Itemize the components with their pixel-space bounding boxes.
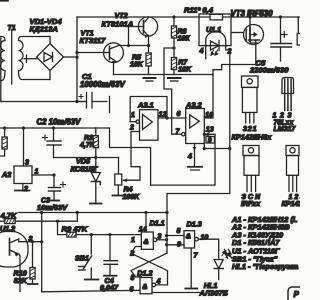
resistor R10 xyxy=(28,242,38,284)
resistor R9 xyxy=(58,221,142,237)
svg-text:R11* 0,4: R11* 0,4 xyxy=(184,5,214,14)
wire left vertical x43 xyxy=(41,213,43,292)
resistor R7 xyxy=(171,48,176,75)
op-amp A3.1 xyxy=(130,97,186,141)
svg-text:2200m/630: 2200m/630 xyxy=(249,66,289,75)
wire latch node upper xyxy=(167,194,230,213)
wire pin9 xyxy=(167,244,184,246)
lightning marks xyxy=(225,250,232,259)
svg-text:4,7K: 4,7K xyxy=(79,142,96,149)
ground chassis under R5 xyxy=(144,77,156,79)
svg-text:10K: 10K xyxy=(178,67,192,74)
svg-text:4,7K: 4,7K xyxy=(0,211,17,220)
wire VT1 base xyxy=(77,52,105,54)
svg-text:1 2 3: 1 2 3 xyxy=(289,194,301,201)
pin 7 ground xyxy=(185,248,197,289)
svg-text:&: & xyxy=(142,284,147,291)
wire U1.1 pin2 to VT3 gate xyxy=(226,46,230,194)
corner box P xyxy=(288,287,306,300)
svg-text:5: 5 xyxy=(131,275,135,282)
op-amp A3.2 xyxy=(182,109,205,144)
svg-text:&: & xyxy=(186,233,191,240)
capacitor C2 xyxy=(43,128,62,158)
svg-text:6: 6 xyxy=(130,287,134,294)
svg-text:АЛ307Б: АЛ307Б xyxy=(199,289,229,298)
wire bridge right vertex xyxy=(64,56,78,58)
svg-text:R7: R7 xyxy=(178,60,188,67)
node C5 xyxy=(279,15,282,18)
svg-text:А3.2: А3.2 xyxy=(185,101,203,110)
svg-text:Р: Р xyxy=(294,290,300,299)
svg-text:SB1: SB1 xyxy=(75,253,89,262)
gate D1.1 xyxy=(141,232,166,249)
svg-text:12: 12 xyxy=(159,112,167,119)
svg-text:D1.3: D1.3 xyxy=(187,219,202,228)
svg-text:З С И: З С И xyxy=(242,194,261,201)
bus y101 xyxy=(0,101,86,103)
svg-text:U1.1: U1.1 xyxy=(206,25,221,34)
gate D1.3 xyxy=(184,231,219,258)
svg-text:А3.1: А3.1 xyxy=(137,101,154,110)
svg-text:4: 4 xyxy=(156,278,161,285)
svg-text:9: 9 xyxy=(177,241,181,248)
svg-text:10000m/63V: 10000m/63V xyxy=(80,80,125,89)
latch cross wires xyxy=(131,247,168,285)
svg-text:1: 1 xyxy=(131,112,135,119)
wire left vertical x77 xyxy=(76,17,78,102)
svg-text:LM317: LM317 xyxy=(274,126,297,133)
legend list xyxy=(231,215,298,271)
wire bus to feedback loop xyxy=(96,128,215,185)
svg-text:2: 2 xyxy=(129,125,134,132)
svg-text:1: 1 xyxy=(131,237,135,244)
gate D1.2 xyxy=(140,278,156,294)
node xyxy=(3,126,6,129)
wire R4 wiper to A3.1 pin2 xyxy=(124,132,141,181)
bus y221 + resistor R8 xyxy=(0,219,58,224)
top edge mark xyxy=(0,0,8,2)
optocoupler U1.1 xyxy=(199,14,231,59)
svg-text:R4: R4 xyxy=(124,187,133,194)
node SB1 top xyxy=(90,233,93,236)
potentiometer R4 xyxy=(113,158,124,196)
svg-text:8: 8 xyxy=(177,228,181,235)
wire pin8 xyxy=(167,235,184,237)
svg-text:4: 4 xyxy=(199,48,204,55)
svg-text:9: 9 xyxy=(208,138,212,145)
svg-text:КТ3117: КТ3117 xyxy=(80,36,107,45)
svg-text:100K: 100K xyxy=(123,194,141,201)
zener VD5 xyxy=(90,158,102,204)
wire latch node xyxy=(166,213,168,254)
svg-text:82K: 82K xyxy=(14,276,28,285)
transistor VT3 IRF530 xyxy=(244,17,264,65)
svg-text:1: 1 xyxy=(35,169,39,176)
wire pin10 xyxy=(204,70,213,118)
svg-text:КР142Е: КР142Е xyxy=(282,201,300,208)
wire AC mid tap xyxy=(24,58,37,60)
resistor R3 xyxy=(93,128,98,159)
svg-text:D1.1: D1.1 xyxy=(150,218,165,227)
resistor R1 left edge xyxy=(0,128,7,156)
svg-text:R9 47K: R9 47K xyxy=(62,224,88,233)
node xyxy=(22,126,25,129)
capacitor C1 xyxy=(77,93,110,113)
svg-text:6: 6 xyxy=(177,111,181,118)
ground chassis under R7 xyxy=(168,77,181,79)
package 78Lxx TO-92 xyxy=(282,78,294,111)
svg-text:3: 3 xyxy=(25,160,29,167)
transistor VT1 КТ3117 xyxy=(104,43,124,75)
block A2 xyxy=(14,128,56,191)
bus y128 xyxy=(0,127,96,129)
svg-text:U1.2: U1.2 xyxy=(0,224,15,233)
package КР142 TO-220 xyxy=(286,146,299,192)
svg-text:R6: R6 xyxy=(178,29,187,36)
svg-text:10m/63V: 10m/63V xyxy=(37,203,68,212)
node xyxy=(147,44,150,47)
optocoupler U1.2 xyxy=(0,232,42,292)
wire output source xyxy=(213,65,256,70)
resistor R12 right edge xyxy=(297,17,302,45)
package КР142ЕН8х TO-220 xyxy=(242,76,259,123)
wire y157 xyxy=(54,157,119,159)
svg-text:VT3 IRF530: VT3 IRF530 xyxy=(231,9,274,18)
transformer T1 xyxy=(0,30,50,102)
ground rail xyxy=(114,74,214,76)
svg-text:T1: T1 xyxy=(8,25,16,32)
node bridge+ xyxy=(75,56,78,59)
svg-text:КТ8101А: КТ8101А xyxy=(102,19,134,28)
resistor R11 xyxy=(210,14,223,20)
svg-text:C2 10m/63V: C2 10m/63V xyxy=(37,118,82,127)
svg-text:7: 7 xyxy=(194,252,199,259)
node xyxy=(127,44,130,47)
pin 9 box xyxy=(203,137,232,151)
resistor R6 xyxy=(171,15,176,49)
node xyxy=(56,220,59,223)
svg-text:КС515Г: КС515Г xyxy=(71,164,98,173)
node C1 top xyxy=(75,100,78,103)
svg-text:4: 4 xyxy=(187,154,192,161)
svg-text:КР142ЕН8х: КР142ЕН8х xyxy=(232,132,273,141)
A3.2 pin 4 ground xyxy=(188,144,202,171)
svg-text:10: 10 xyxy=(201,234,209,241)
capacitor C4 xyxy=(104,235,118,276)
svg-text:&: & xyxy=(144,239,149,246)
svg-text:2: 2 xyxy=(129,250,134,257)
top bus xyxy=(77,16,300,18)
diode bridge VD1-VD4 xyxy=(37,37,64,80)
svg-text:D1.2: D1.2 xyxy=(137,268,152,277)
bus y212 xyxy=(19,212,167,214)
svg-text:HL1 - "Перегрузка: HL1 - "Перегрузка xyxy=(232,262,298,271)
bottom rail xyxy=(42,290,140,292)
wire D1 pin14 xyxy=(145,213,147,233)
capacitor C5 xyxy=(271,17,292,61)
svg-text:IRFxx: IRFxx xyxy=(241,201,261,208)
transistor VT2 КТ8101А xyxy=(129,17,158,46)
svg-text:А2: А2 xyxy=(1,170,11,179)
wire VT1 collector xyxy=(121,45,149,47)
wire A3.2 pin7 from divider xyxy=(172,118,182,134)
resistor R5 xyxy=(146,46,151,75)
node C4 top xyxy=(108,233,111,236)
node VT3 drain xyxy=(248,15,251,18)
wire R6R7 node to A3 xyxy=(164,48,174,118)
wire bus2 to bus1 link xyxy=(76,213,78,222)
svg-text:3: 3 xyxy=(158,234,162,241)
svg-text:10K: 10K xyxy=(130,62,144,69)
node R10 top xyxy=(31,240,34,243)
wire pin13 xyxy=(203,133,215,137)
svg-text:КД213А: КД213А xyxy=(30,24,58,33)
svg-text:R5: R5 xyxy=(132,55,141,62)
svg-text:R3: R3 xyxy=(84,135,93,142)
switch SB1 xyxy=(79,235,99,280)
LED HL1 xyxy=(214,251,230,280)
node xyxy=(52,126,55,129)
package IRFxx TO-220 xyxy=(243,146,259,192)
capacitor C3 xyxy=(49,175,66,201)
svg-text:10К: 10К xyxy=(178,36,191,43)
svg-text:2: 2 xyxy=(23,186,28,193)
node VT1 base xyxy=(75,51,78,54)
